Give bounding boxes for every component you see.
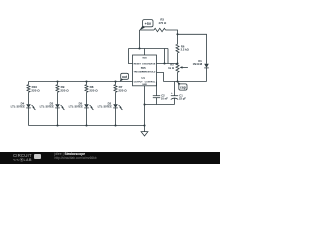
svg-text:VDD: VDD bbox=[142, 58, 147, 60]
footer banner bbox=[0, 152, 220, 164]
LED D3 bbox=[40, 102, 65, 126]
svg-text:THRESHOLD: THRESHOLD bbox=[142, 71, 156, 73]
svg-text:2.2 kΩ: 2.2 kΩ bbox=[181, 48, 190, 52]
wire +5V down to VDD rail bbox=[139, 30, 141, 49]
svg-text:555: 555 bbox=[141, 66, 146, 70]
potentiometer R5 bbox=[168, 63, 188, 82]
capacitor C2 bbox=[153, 94, 168, 105]
capacitor C1 bbox=[171, 82, 186, 105]
node out flag bbox=[120, 73, 129, 81]
svg-text:LTL-307EE: LTL-307EE bbox=[11, 104, 25, 108]
wire threshold pin bbox=[157, 73, 164, 82]
op-amp U1 555 timer bbox=[133, 55, 157, 86]
svg-text:1N4148: 1N4148 bbox=[193, 62, 203, 66]
svg-text:220 Ω: 220 Ω bbox=[118, 89, 127, 93]
resistor R3 bbox=[154, 18, 167, 32]
svg-text:220 Ω: 220 Ω bbox=[89, 89, 98, 93]
svg-text:10 nF: 10 nF bbox=[161, 97, 168, 101]
svg-text:LTL-307EE: LTL-307EE bbox=[40, 104, 54, 108]
wire cap ground rail bbox=[145, 104, 175, 106]
svg-text:U1: U1 bbox=[142, 76, 146, 80]
resistor R8 bbox=[85, 82, 98, 105]
svg-text:+5V: +5V bbox=[145, 22, 152, 26]
svg-text:out: out bbox=[122, 75, 128, 79]
ground bbox=[141, 126, 148, 137]
node junction R6 top bbox=[176, 33, 178, 35]
node +5V flag bbox=[140, 20, 154, 31]
wire output rail bbox=[29, 81, 133, 83]
svg-text:cap: cap bbox=[180, 86, 186, 90]
LED D4 bbox=[11, 102, 36, 126]
resistor R6 bbox=[176, 34, 190, 63]
svg-text:220 Ω: 220 Ω bbox=[60, 89, 69, 93]
wire discharge pin to R6/R5 node bbox=[157, 63, 178, 65]
resistor R10 bbox=[27, 82, 40, 105]
node cap flag bbox=[178, 82, 188, 90]
wire control pin to C2 bbox=[156, 82, 158, 96]
LED D5 bbox=[69, 102, 94, 126]
svg-text:220 Ω: 220 Ω bbox=[31, 89, 40, 93]
wire 555 gnd down bbox=[144, 86, 146, 126]
svg-text:22 µF: 22 µF bbox=[179, 97, 186, 101]
wire discharge riser bbox=[164, 49, 166, 64]
svg-text:LTL-307EE: LTL-307EE bbox=[98, 104, 112, 108]
svg-text:470 Ω: 470 Ω bbox=[159, 21, 167, 25]
wire +5V flag to R3 bbox=[140, 29, 155, 31]
svg-text:+: + bbox=[171, 91, 173, 95]
resistor R7 bbox=[114, 82, 127, 105]
wire top right run to D1 bbox=[178, 34, 207, 63]
wire discharge riser 2 bbox=[167, 49, 169, 64]
wire R3 to corner, step down bbox=[166, 30, 178, 34]
wire bottom rail bbox=[29, 125, 145, 127]
wire reset/vdd loop bbox=[129, 48, 169, 50]
svg-text:LTL-307EE: LTL-307EE bbox=[69, 104, 83, 108]
diode D1 bbox=[193, 59, 209, 81]
resistor R9 bbox=[56, 82, 69, 105]
LED D2 bbox=[98, 102, 123, 126]
svg-text:GND: GND bbox=[142, 84, 147, 86]
wire VDD stub bbox=[144, 49, 146, 56]
wire reset drop bbox=[129, 49, 133, 64]
node junctions output rail bbox=[56, 80, 58, 82]
wire cap node bbox=[164, 81, 207, 83]
svg-text:1k Ω: 1k Ω bbox=[168, 66, 175, 70]
node junctions bottom rail bbox=[56, 124, 58, 126]
